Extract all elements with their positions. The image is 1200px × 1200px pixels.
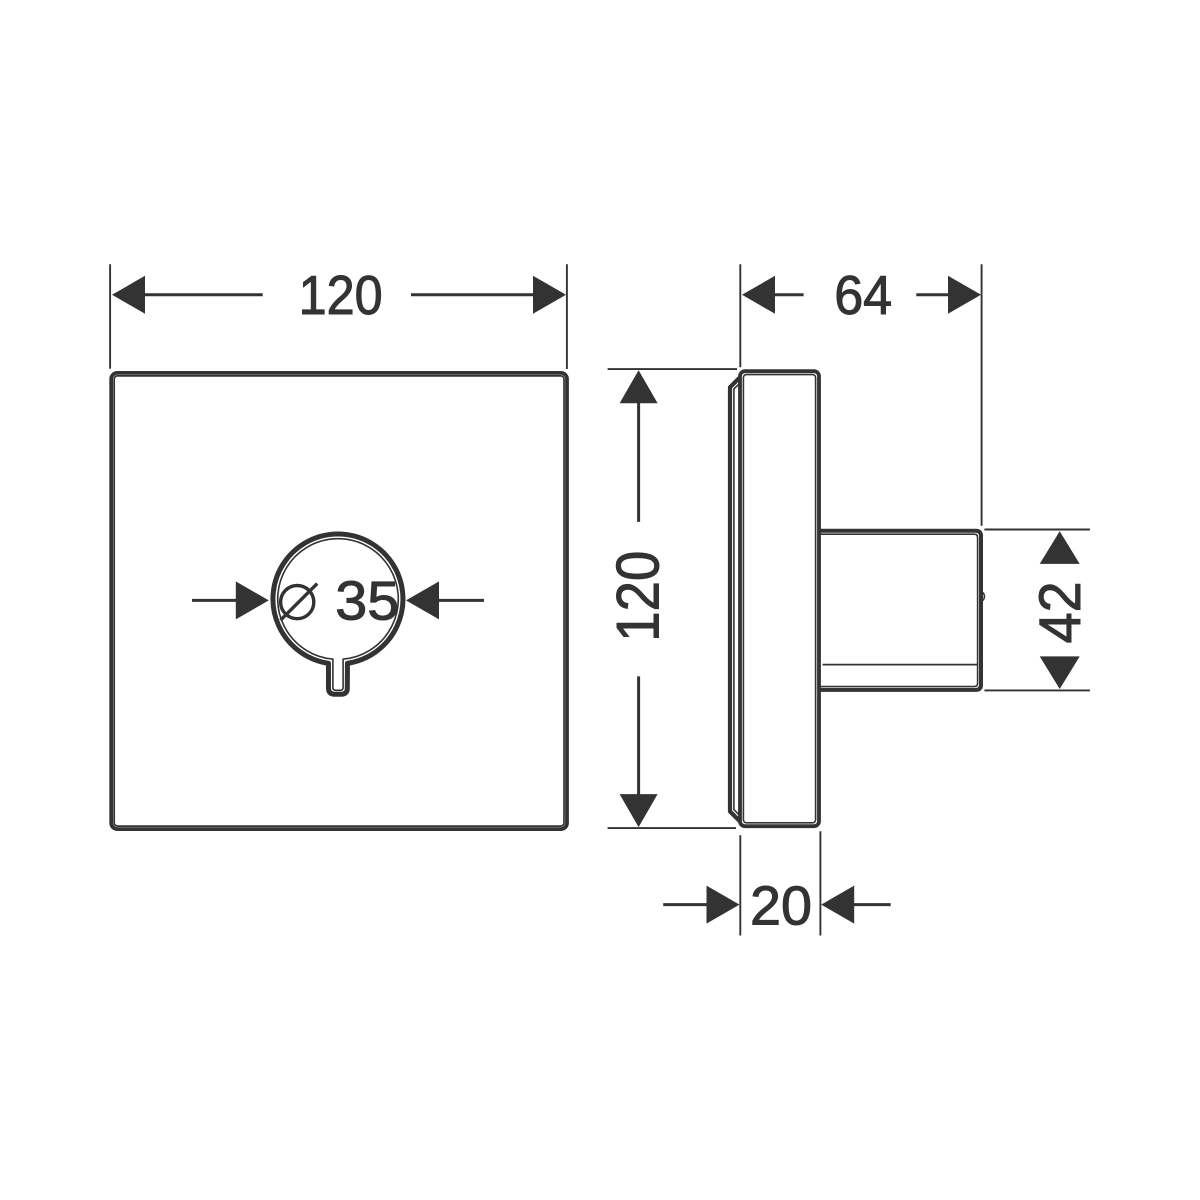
dim 64 top: right extension line [981, 264, 983, 525]
dim diameter 35: left arrowhead [236, 581, 269, 619]
side view body outer outline [740, 371, 819, 826]
svg-text:120: 120 [299, 264, 383, 326]
dim 20 bottom: right arrowhead [821, 886, 854, 924]
dim 42 right: bottom arrowhead [1040, 656, 1080, 689]
dim 42 right: top arrowhead [1040, 531, 1080, 564]
dim 120 top: left extension line [109, 264, 111, 369]
dim 64 top: right dimension line segment [916, 293, 948, 296]
front view plate inner edge line [114, 376, 564, 826]
dim 120 side: lower dimension line segment [637, 676, 640, 796]
side view handle block inner thin line [820, 534, 978, 686]
svg-text:35: 35 [335, 570, 399, 632]
dim 20 bottom: left arrowhead [707, 886, 740, 924]
dim diameter 35: left leader line [192, 599, 240, 602]
dim 120 top: left arrowhead [112, 276, 145, 314]
dim 64 top: left dimension line segment [774, 293, 804, 296]
side view body inner thin line [743, 375, 815, 823]
dim 20 bottom: right extension line [819, 831, 821, 935]
dim 20 bottom: right leader line [854, 903, 891, 906]
dim diameter 35: right arrowhead [406, 581, 439, 619]
dim 120 side: top arrowhead [620, 370, 658, 403]
dim 20 bottom: left extension line [739, 835, 741, 935]
svg-text:20: 20 [750, 875, 812, 937]
side view handle block detail line [823, 664, 978, 666]
side view cover plate strip inner thin line [734, 383, 740, 815]
dim 120 side: bottom arrowhead [620, 794, 658, 827]
handle circle outer outline with bottom tab [273, 534, 403, 694]
side view cover plate strip outer outline [730, 378, 740, 821]
dim 120 side: upper dimension line segment [637, 403, 640, 522]
dim diameter 35: diameter symbol [281, 584, 318, 621]
dim 120 side: bottom extension line [608, 827, 736, 829]
dim 64 top: left extension line [739, 264, 741, 367]
dim diameter 35: right leader line [438, 599, 484, 602]
dim 120 top: left dimension line segment [143, 293, 263, 296]
dim 64 top: left arrowhead [742, 276, 775, 314]
handle circle inner thin line with tab [278, 539, 399, 691]
svg-text:64: 64 [834, 264, 892, 326]
front view plate outer outline [111, 373, 567, 829]
side view handle block nub on right edge [983, 593, 985, 601]
dim 120 top: right extension line [566, 264, 568, 369]
dim 120 top: right dimension line segment [411, 293, 535, 296]
side view handle block outer outline [820, 531, 981, 690]
dim 64 top: right arrowhead [948, 276, 981, 314]
dim 120 side: top extension line [608, 368, 737, 370]
svg-text:42: 42 [1028, 581, 1093, 643]
dim 20 bottom: left leader line [663, 903, 707, 906]
svg-text:120: 120 [605, 551, 672, 642]
dim 120 top: right arrowhead [533, 276, 566, 314]
dim 42 right: bottom extension line [984, 689, 1090, 691]
dim 42 right: top extension line [984, 529, 1090, 531]
